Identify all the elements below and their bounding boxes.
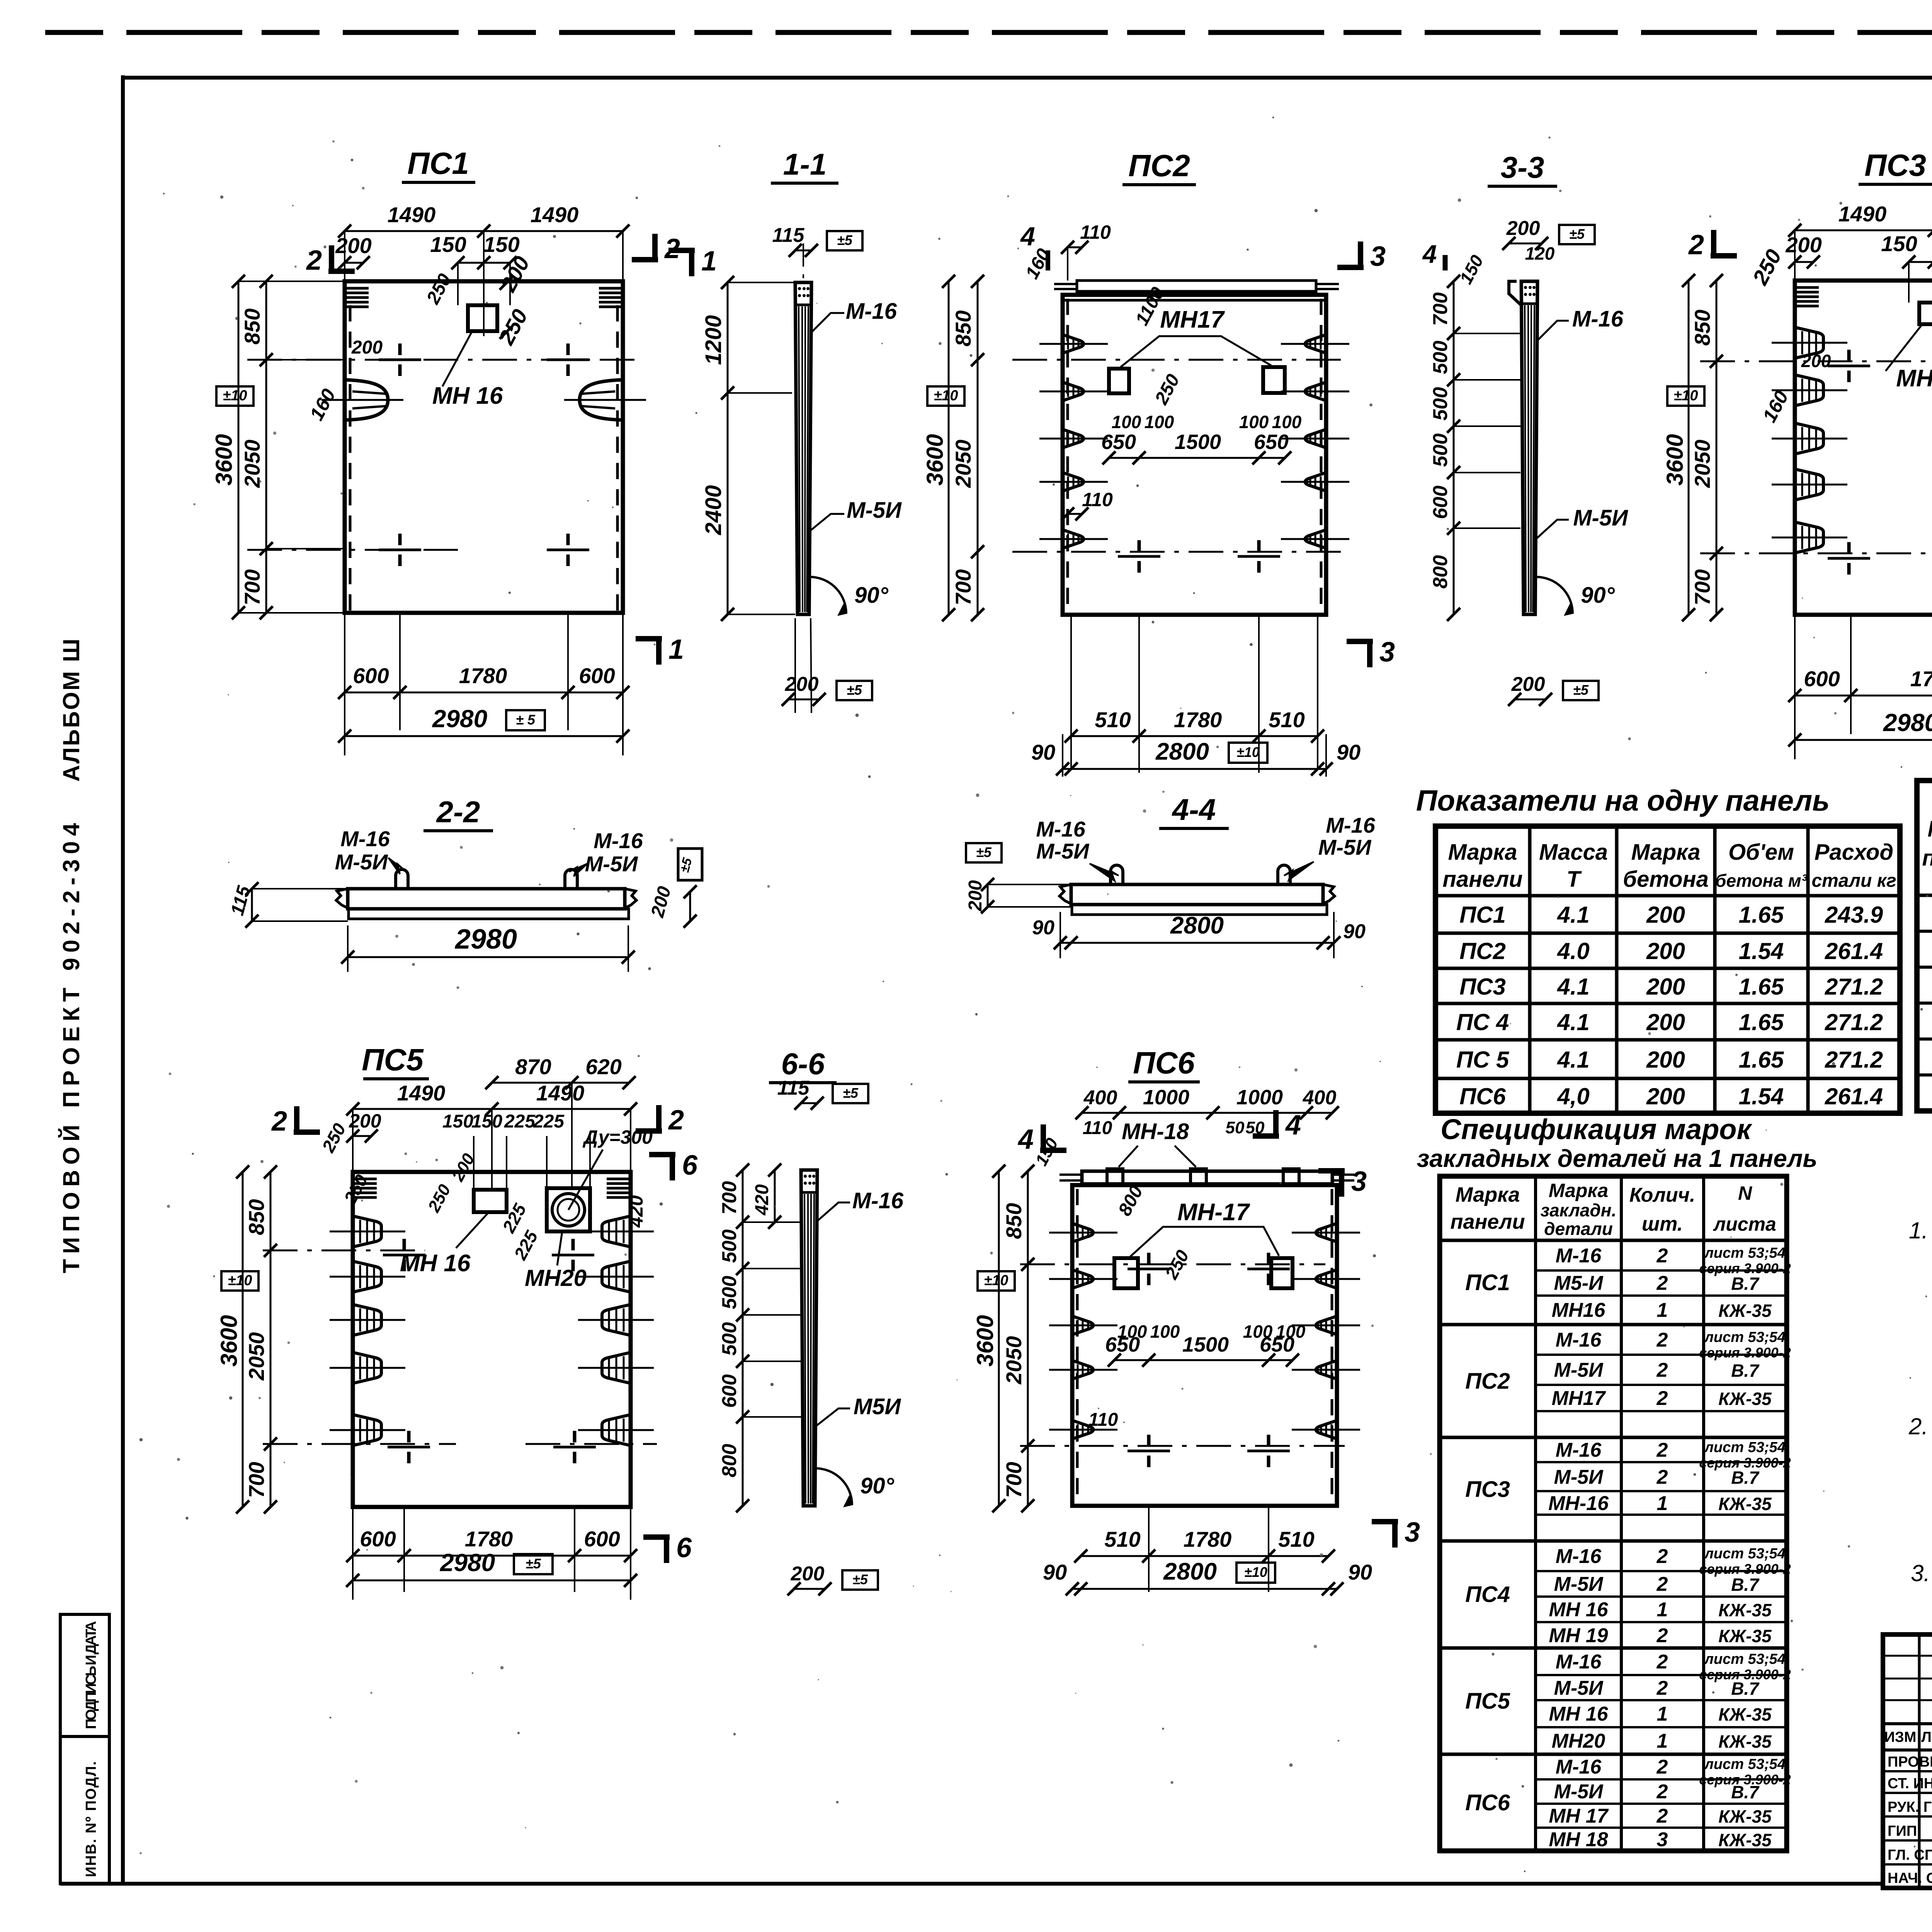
svg-text:М-5И: М-5И (1554, 1781, 1604, 1803)
table Выборка стали grid (1917, 781, 1932, 1111)
svg-text:2400: 2400 (701, 485, 726, 535)
svg-text:2: 2 (1656, 1359, 1668, 1381)
svg-text:850: 850 (1690, 310, 1714, 345)
svg-text:М-16: М-16 (1556, 1329, 1602, 1351)
panel ПС5 side anchor tabs (330, 1216, 654, 1446)
svg-text:90: 90 (1031, 740, 1055, 764)
svg-text:3: 3 (1657, 1828, 1668, 1851)
margin box ПОДПИСЬ И ДАТА (60, 1614, 109, 1736)
drawing title 4-4 (1159, 793, 1229, 828)
panel ПС1 centrelines (247, 360, 638, 550)
svg-text:±5: ±5 (837, 232, 853, 248)
svg-text:ПС3: ПС3 (1465, 1477, 1510, 1502)
svg-text:120: 120 (1525, 243, 1555, 264)
svg-text:261.4: 261.4 (1825, 938, 1883, 964)
svg-text:870: 870 (515, 1054, 551, 1079)
svg-text:серия 3.900-2: серия 3.900-2 (1699, 1345, 1791, 1361)
svg-text:М5-И: М5-И (1554, 1272, 1604, 1294)
svg-text:МН-16: МН-16 (1548, 1492, 1609, 1515)
svg-text:1.54: 1.54 (1739, 1083, 1784, 1109)
svg-text:Марка: Марка (1631, 840, 1700, 865)
svg-text:4: 4 (1285, 1110, 1301, 1141)
svg-text:3-3: 3-3 (1501, 150, 1544, 184)
svg-text:3. Армирование см. листы КЖ: 3. Армирование см. листы КЖ-27 ; КЖ-28 (1911, 1560, 1932, 1586)
panel ПС3 centrelines and crosses (1700, 350, 1932, 575)
svg-text:1: 1 (701, 246, 717, 277)
svg-text:1490: 1490 (388, 202, 436, 227)
svg-text:3: 3 (1351, 1166, 1367, 1197)
drawing title ПС2 (1122, 148, 1196, 185)
svg-text:КЖ-35: КЖ-35 (1718, 1626, 1772, 1646)
panel ПС1 bottom dimension 2980 (338, 705, 629, 743)
svg-text:ПС6: ПС6 (1459, 1083, 1506, 1109)
svg-text:М-5И: М-5И (1036, 839, 1090, 863)
svg-text:4-4: 4-4 (1172, 793, 1216, 827)
svg-text:6: 6 (682, 1150, 698, 1181)
svg-text:200: 200 (1785, 233, 1821, 257)
svg-text:Об'ем: Об'ем (1728, 840, 1794, 865)
svg-text:М5И: М5И (854, 1394, 901, 1419)
svg-text:А Л Ь Б О М Ш: А Л Ь Б О М Ш (58, 639, 84, 782)
svg-text:ПОДПИСЬ И ДАТА: ПОДПИСЬ И ДАТА (83, 1621, 99, 1729)
svg-text:2: 2 (1656, 1651, 1668, 1673)
svg-text:1000: 1000 (1143, 1086, 1189, 1109)
svg-text:2: 2 (1656, 1439, 1668, 1461)
svg-text:90: 90 (1337, 740, 1361, 764)
svg-text:М-16: М-16 (1556, 1439, 1602, 1461)
svg-text:М-5И: М-5И (847, 498, 902, 523)
svg-text:МН 16: МН 16 (1549, 1599, 1608, 1621)
svg-text:2: 2 (1688, 230, 1704, 260)
drawing title ПС5 (362, 1043, 429, 1079)
svg-text:2: 2 (1656, 1245, 1668, 1267)
svg-text:±5: ±5 (526, 1556, 541, 1571)
svg-text:200: 200 (791, 1563, 825, 1585)
svg-text:200: 200 (1646, 1009, 1685, 1035)
svg-text:КЖ-35: КЖ-35 (1718, 1731, 1772, 1752)
svg-text:МН16: МН16 (1552, 1299, 1606, 1321)
svg-text:РУК. ГР.: РУК. ГР. (1888, 1799, 1932, 1815)
svg-text:700: 700 (718, 1181, 741, 1215)
svg-text:400: 400 (1083, 1087, 1117, 1109)
svg-text:КЖ-35: КЖ-35 (1718, 1301, 1772, 1321)
drawing title ПС1 (402, 146, 475, 182)
svg-text:М-5И: М-5И (335, 850, 388, 874)
section markers of ПС6 (1017, 1110, 1420, 1548)
svg-text:200: 200 (1506, 217, 1540, 240)
svg-text:ПС2: ПС2 (1128, 148, 1190, 183)
svg-text:200: 200 (335, 233, 371, 258)
svg-text:1780: 1780 (1910, 667, 1932, 691)
panel ПС1 outline (345, 281, 623, 613)
svg-text:±10: ±10 (1673, 388, 1698, 404)
svg-text:М-16: М-16 (852, 1188, 904, 1213)
panel ПС3 top dimension 1490 1490 (1788, 202, 1932, 332)
panel ПС6 side anchor tabs (1049, 1223, 1360, 1439)
svg-text:3600: 3600 (922, 434, 948, 485)
panel ПС1 left dimensions 3600 850 2050 700 (211, 275, 345, 619)
section 3-3 left dimensions 150 700 500 500 500 600 800 (1422, 240, 1520, 621)
svg-text:90: 90 (1032, 917, 1054, 939)
svg-text:±10: ±10 (228, 1272, 252, 1289)
svg-text:200: 200 (785, 673, 819, 696)
svg-text:225: 225 (533, 1111, 565, 1132)
svg-text:КЖ-35: КЖ-35 (1718, 1704, 1772, 1725)
sheet frame inner top border (123, 76, 1932, 80)
svg-text:650: 650 (1260, 1333, 1294, 1356)
section 3-3 top dimension 200 120 (1502, 217, 1595, 264)
svg-text:СТ. ИНЖ.: СТ. ИНЖ. (1888, 1776, 1932, 1792)
section 6-6 top dimension 115 (777, 1077, 868, 1110)
svg-text:1: 1 (1657, 1703, 1668, 1725)
svg-text:700: 700 (951, 569, 975, 605)
svg-text:600: 600 (1429, 486, 1452, 519)
section 2-2 labels and dims (227, 827, 702, 972)
svg-text:600: 600 (353, 663, 389, 688)
svg-text:М-16: М-16 (1556, 1756, 1602, 1778)
svg-text:600: 600 (360, 1527, 396, 1551)
embedded plate МН16 of ПС1 (432, 305, 503, 409)
svg-text:±10: ±10 (934, 388, 958, 404)
svg-text:±10: ±10 (984, 1272, 1008, 1289)
svg-text:ГЛ. СПЕЦ.: ГЛ. СПЕЦ. (1888, 1847, 1932, 1863)
svg-text:4,0: 4,0 (1557, 1083, 1589, 1109)
svg-text:620: 620 (585, 1054, 621, 1079)
svg-text:700: 700 (244, 1462, 269, 1498)
panel ПС5 centrelines and crosses (263, 1239, 657, 1463)
svg-text:ПС3: ПС3 (1459, 974, 1506, 1000)
svg-text:110: 110 (1080, 221, 1111, 243)
svg-text:лист 53;54: лист 53;54 (1704, 1245, 1786, 1261)
svg-text:200: 200 (1646, 1083, 1685, 1109)
section markers of ПС1 (306, 233, 717, 665)
svg-text:Т: Т (1566, 867, 1582, 892)
svg-text:400: 400 (1303, 1087, 1337, 1109)
svg-text:200: 200 (1511, 673, 1545, 696)
svg-text:115: 115 (777, 1077, 810, 1099)
svg-text:1780: 1780 (1184, 1527, 1232, 1551)
svg-text:бетона м³: бетона м³ (1715, 871, 1808, 891)
svg-text:М-5И: М-5И (1318, 835, 1372, 859)
svg-text:600: 600 (718, 1374, 741, 1408)
svg-text:200: 200 (1646, 1047, 1685, 1073)
svg-text:3: 3 (1405, 1517, 1420, 1548)
svg-text:200: 200 (1646, 974, 1685, 1000)
svg-text:243.9: 243.9 (1825, 902, 1883, 928)
svg-text:закладн.: закладн. (1541, 1200, 1617, 1220)
svg-text:500: 500 (718, 1230, 741, 1263)
panel ПС5 top dimension 870 620 (485, 1054, 636, 1188)
section 6-6 left dimensions 420 700 500 500 500 600 800 (718, 1163, 801, 1512)
svg-text:КЖ-35: КЖ-35 (1718, 1806, 1772, 1827)
svg-text:3600: 3600 (211, 434, 237, 485)
svg-text:3600: 3600 (1662, 434, 1688, 485)
margin text АЛЬБОМ III (58, 639, 84, 782)
panel ПС1 inner dim 200 160 250 (306, 270, 456, 424)
margin box ИНВ № ПОДЛ (60, 1736, 109, 1884)
svg-text:±10: ±10 (1236, 744, 1260, 760)
svg-text:1.65: 1.65 (1739, 902, 1784, 928)
panel ПС6 top dimensions 400 1000 1000 400 (1075, 1086, 1339, 1282)
svg-text:1000: 1000 (1236, 1086, 1283, 1109)
svg-text:закладных деталей на 1 панель: закладных деталей на 1 панель (1417, 1145, 1818, 1172)
svg-text:600: 600 (584, 1527, 620, 1551)
drawing title 6-6 (769, 1047, 837, 1083)
svg-text:800: 800 (718, 1444, 741, 1478)
panel ПС6 outline (1072, 1185, 1337, 1506)
svg-text:4.1: 4.1 (1557, 1009, 1589, 1035)
section markers of ПС5 (271, 1105, 698, 1563)
svg-text:50: 50 (1226, 1118, 1245, 1137)
svg-text:150: 150 (471, 1111, 502, 1132)
svg-text:1490: 1490 (397, 1081, 446, 1105)
svg-text:2-2: 2-2 (436, 795, 480, 829)
svg-text:1.65: 1.65 (1739, 974, 1784, 1000)
svg-text:МН20: МН20 (1552, 1730, 1605, 1752)
svg-text:2: 2 (668, 1105, 684, 1136)
svg-text:КЖ-35: КЖ-35 (1718, 1494, 1772, 1514)
svg-text:ПС1: ПС1 (1465, 1270, 1510, 1295)
svg-text:2050: 2050 (1002, 1336, 1026, 1385)
svg-text:±10: ±10 (223, 388, 247, 404)
svg-text:ПС1: ПС1 (1459, 902, 1506, 928)
svg-text:1: 1 (1657, 1299, 1668, 1321)
svg-text:4.0: 4.0 (1557, 938, 1589, 964)
svg-text:ПС5: ПС5 (362, 1043, 424, 1077)
table Спецификация title (1417, 1113, 1818, 1172)
svg-text:510: 510 (1095, 707, 1131, 732)
table Спецификация data (1465, 1245, 1791, 1851)
svg-text:МН17: МН17 (1552, 1387, 1606, 1410)
svg-text:М-16: М-16 (846, 299, 897, 324)
svg-text:271.2: 271.2 (1825, 1009, 1883, 1035)
signature table grid (1883, 1634, 1932, 1888)
svg-text:панели: панели (1442, 867, 1522, 892)
section 1-1 labels М-16 М-5И 90° (810, 299, 902, 616)
svg-text:Показатели на одну панель: Показатели на одну панель (1416, 784, 1830, 817)
embedded plates МН-17 of ПС6 (1114, 1199, 1293, 1288)
svg-text:Марка: Марка (1456, 1183, 1520, 1206)
svg-text:4: 4 (1422, 240, 1437, 268)
svg-text:М-5И: М-5И (1554, 1573, 1604, 1595)
svg-text:МН 19: МН 19 (1549, 1624, 1608, 1647)
svg-text:ПРОВЕРИЛ: ПРОВЕРИЛ (1888, 1754, 1932, 1770)
panel ПС2 dimension 110 at top (1061, 221, 1111, 281)
svg-text:115: 115 (772, 224, 805, 247)
svg-text:М-5И: М-5И (585, 852, 638, 876)
svg-text:271.2: 271.2 (1825, 1047, 1883, 1073)
svg-text:Т И П О В О Й П Р О Е К Т: Т И П О В О Й П Р О Е К Т 9 0 2 - 2 - 3 … (58, 823, 84, 1273)
svg-text:В.7: В.7 (1731, 1782, 1760, 1802)
sheet frame bottom border (60, 1882, 1883, 1886)
svg-text:листа: листа (1713, 1213, 1776, 1235)
svg-text:2: 2 (1656, 1329, 1668, 1351)
embedded plate МН16 of ПС5 (400, 1190, 507, 1277)
panel ПС6 bottom dimensions 510 1780 510 90 2800 90 (1043, 1506, 1372, 1595)
section 6-6 wall sliver (801, 1170, 817, 1506)
svg-text:ГИП: ГИП (1888, 1823, 1917, 1839)
svg-text:панели: панели (1451, 1210, 1525, 1233)
svg-text:3: 3 (1379, 637, 1395, 668)
svg-text:М-16: М-16 (1556, 1245, 1602, 1267)
svg-text:6: 6 (676, 1532, 692, 1563)
svg-text:М-5И: М-5И (1554, 1359, 1604, 1381)
panel ПС5 left dimensions (216, 1120, 350, 1514)
table Показатели grid (1435, 826, 1900, 1113)
section 3-3 wall sliver (1509, 281, 1537, 614)
svg-text:100: 100 (1150, 1321, 1180, 1342)
signature table names (1888, 1753, 1932, 1886)
svg-text:6-6: 6-6 (781, 1047, 825, 1081)
svg-text:±5: ±5 (843, 1085, 859, 1101)
svg-text:МН-17: МН-17 (1177, 1199, 1250, 1226)
embedded plate МН16 of ПС3 (1886, 303, 1932, 392)
section 4-4 panel bar (1060, 865, 1335, 915)
svg-text:90°: 90° (854, 583, 889, 608)
svg-text:271.2: 271.2 (1825, 974, 1883, 1000)
panel ПС5 bottom dimensions (346, 1507, 637, 1600)
svg-text:650: 650 (1101, 430, 1136, 454)
svg-text:2980: 2980 (1883, 709, 1932, 736)
svg-text:2: 2 (1656, 1272, 1668, 1294)
svg-text:650: 650 (1254, 430, 1289, 454)
svg-text:3: 3 (1370, 241, 1386, 272)
table Показатели data rows (1456, 902, 1883, 1109)
svg-text:510: 510 (1104, 1527, 1140, 1551)
svg-text:100: 100 (1145, 412, 1174, 432)
svg-text:±5: ±5 (1569, 226, 1585, 242)
svg-text:200: 200 (965, 880, 986, 912)
svg-text:МН16: МН16 (1896, 365, 1932, 392)
svg-text:МН-18: МН-18 (1122, 1119, 1189, 1144)
svg-text:ПС4: ПС4 (1465, 1582, 1510, 1607)
svg-text:200: 200 (349, 1110, 381, 1132)
section 3-3 bottom dimension 200 (1508, 673, 1599, 706)
svg-text:1.65: 1.65 (1739, 1047, 1784, 1073)
svg-text:М-16: М-16 (1326, 813, 1375, 837)
svg-text:200: 200 (1646, 902, 1685, 928)
svg-text:М-16: М-16 (594, 828, 643, 853)
svg-text:2: 2 (1656, 1781, 1668, 1803)
svg-text:лист 53;54: лист 53;54 (1704, 1329, 1786, 1345)
svg-text:Расход: Расход (1815, 840, 1894, 865)
section 2-2 panel bar (336, 869, 636, 919)
svg-text:стали кг: стали кг (1811, 871, 1896, 891)
svg-text:700: 700 (1002, 1462, 1026, 1498)
panel ПС1 bottom dimensions 600 1780 600 (338, 613, 629, 755)
panel ПС5 top dimension 1490 1490 (346, 1081, 637, 1190)
svg-text:1. Панели ПС1, ПС3, ПС4, ПС5: 1. Панели ПС1, ПС3, ПС4, ПС5 изготовляют… (1909, 1218, 1932, 1243)
svg-text:2980: 2980 (454, 924, 517, 955)
svg-text:150: 150 (430, 232, 466, 257)
svg-text:2050: 2050 (1690, 440, 1714, 488)
svg-text:90°: 90° (1581, 583, 1615, 608)
panel ПС2 top beam strip (1054, 281, 1339, 291)
panel ПС2 plate dimensions 100 100 650 1500 650 (1101, 284, 1302, 464)
svg-text:225: 225 (504, 1111, 536, 1132)
panel ПС2 centrelines and crosses (1012, 360, 1349, 573)
svg-text:Масса: Масса (1539, 840, 1608, 865)
svg-text:600: 600 (1804, 667, 1840, 691)
section 1-1 bottom dimension 200 (782, 618, 872, 713)
svg-text:2800: 2800 (1163, 1558, 1217, 1585)
panel ПС6 plate dims 100 100 650 1500 650 (1088, 1321, 1306, 1430)
svg-text:лист 53;54: лист 53;54 (1704, 1756, 1786, 1772)
svg-text:200: 200 (1646, 938, 1685, 964)
svg-text:150: 150 (442, 1111, 473, 1132)
svg-text:1200: 1200 (701, 315, 726, 365)
svg-text:ПС 4: ПС 4 (1456, 1009, 1509, 1035)
panel ПС3 outline (1795, 281, 1932, 615)
drawing title ПС6 (1128, 1046, 1200, 1082)
svg-text:лист 53;54: лист 53;54 (1704, 1439, 1786, 1456)
table Показатели header (1442, 840, 1896, 892)
svg-text:Спецификация марок: Спецификация марок (1440, 1113, 1752, 1145)
svg-text:500: 500 (1429, 341, 1452, 374)
svg-text:100: 100 (1239, 412, 1269, 432)
svg-text:±5: ±5 (976, 844, 992, 860)
svg-text:лист 53;54: лист 53;54 (1704, 1546, 1786, 1562)
svg-text:1490: 1490 (1838, 202, 1887, 226)
svg-text:1-1: 1-1 (783, 147, 827, 181)
svg-text:± 5: ± 5 (516, 712, 536, 728)
svg-text:1: 1 (1657, 1730, 1668, 1752)
svg-text:1: 1 (1657, 1492, 1668, 1515)
svg-text:4.1: 4.1 (1557, 1047, 1589, 1073)
svg-text:850: 850 (244, 1199, 269, 1235)
svg-text:90°: 90° (860, 1473, 895, 1498)
svg-text:шт.: шт. (1642, 1213, 1683, 1235)
svg-text:2. Панели ПС2 и ПС6 изго: 2. Панели ПС2 и ПС6 изготовляются в опал… (1908, 1413, 1932, 1439)
section 6-6 bottom dimension 200 (787, 1563, 878, 1595)
panel ПС5 outline (353, 1172, 631, 1507)
svg-text:1500: 1500 (1175, 430, 1221, 454)
svg-text:М-16: М-16 (1556, 1545, 1602, 1568)
svg-text:КЖ-35: КЖ-35 (1718, 1389, 1772, 1409)
svg-text:Марка: Марка (1927, 816, 1932, 842)
svg-text:1780: 1780 (465, 1527, 513, 1551)
svg-text:МН17: МН17 (1160, 306, 1225, 333)
svg-text:2: 2 (1656, 1387, 1668, 1410)
svg-text:90: 90 (1343, 920, 1366, 943)
svg-text:150: 150 (1881, 231, 1917, 256)
panel ПС2 dimension 160 left (1020, 222, 1054, 282)
svg-text:110: 110 (1082, 489, 1113, 510)
panel ПС1 side anchor tabs (321, 380, 646, 420)
svg-text:В.7: В.7 (1731, 1361, 1760, 1381)
svg-text:В.7: В.7 (1731, 1274, 1760, 1294)
svg-text:2: 2 (1656, 1573, 1668, 1595)
svg-text:2050: 2050 (244, 1332, 269, 1381)
panel ПС2 left dimensions 3600 850 2050 700 (922, 275, 984, 621)
svg-text:1780: 1780 (1174, 707, 1222, 732)
svg-text:500: 500 (718, 1322, 741, 1356)
svg-text:М-5И: М-5И (1554, 1466, 1604, 1488)
section markers 3 of ПС2 (1337, 241, 1395, 668)
svg-text:2050: 2050 (951, 440, 975, 488)
svg-text:панели: панели (1922, 845, 1932, 871)
svg-text:ЛИСТ: ЛИСТ (1921, 1729, 1932, 1745)
svg-text:700: 700 (240, 569, 264, 605)
svg-text:4.1: 4.1 (1557, 974, 1589, 1000)
svg-text:МН 18: МН 18 (1549, 1828, 1608, 1851)
svg-text:МН 17: МН 17 (1549, 1805, 1609, 1827)
svg-text:ПС2: ПС2 (1465, 1369, 1510, 1394)
svg-text:В.7: В.7 (1731, 1679, 1760, 1699)
svg-text:МН 16: МН 16 (1549, 1703, 1608, 1725)
table Выборка стали headers (1922, 780, 1932, 915)
svg-text:500: 500 (1429, 387, 1452, 421)
